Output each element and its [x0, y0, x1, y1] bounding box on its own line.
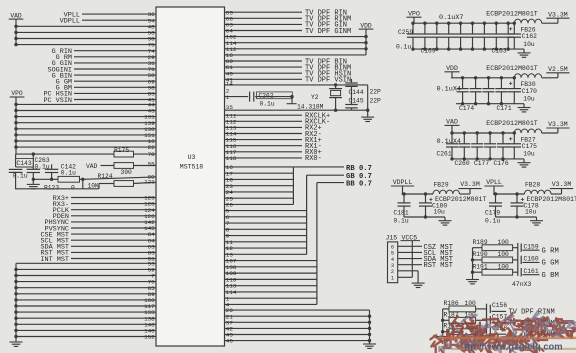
svg-text:1: 1 [391, 276, 394, 282]
ground J15 [412, 282, 425, 284]
svg-text:G GM: G GM [542, 260, 559, 268]
junction bottom bus [14, 335, 17, 338]
svg-text:C144: C144 [349, 89, 364, 96]
svg-text:C261: C261 [437, 150, 452, 157]
wire VDPLL stub [402, 186, 404, 194]
junction R123 right / loop [80, 178, 84, 180]
junction left bus [471, 271, 474, 274]
svg-text:ECBP2012M801T: ECBP2012M801T [486, 120, 537, 127]
capacitor C158 [489, 328, 491, 336]
wire U3 pin 12 to GB bus [225, 247, 307, 249]
junction bottom bus [14, 323, 17, 326]
wire VPO stub [413, 17, 415, 23]
wire U3 pin 116 RX1- [225, 145, 303, 147]
junction VPO bus [14, 115, 17, 118]
ground R186 network [436, 336, 449, 338]
watermark glyph band row 2 [430, 330, 547, 353]
ground filter VPO [523, 49, 525, 53]
resistor R187 100 [443, 319, 449, 321]
capacitor filter VPO #4 [447, 22, 450, 25]
junction bottom bus [14, 298, 17, 301]
junction VPO bus [14, 127, 17, 130]
wire VDD bottom rail [456, 103, 524, 105]
junction bottom bus [14, 268, 17, 271]
junction VPO bus [14, 145, 17, 148]
svg-text:V3.3M: V3.3M [552, 181, 572, 188]
wire U3 pin 112 RXCLK- [225, 120, 303, 122]
wire bottom bus to U3 pin 133 [16, 311, 156, 313]
junction bottom bus [14, 304, 17, 307]
ferrite bead FB28 ECBP2012M801T [525, 190, 552, 194]
svg-text:0.1u: 0.1u [260, 101, 275, 108]
svg-text:R186: R186 [444, 300, 459, 307]
wire crystal right branch [367, 85, 369, 110]
wire bottom-right bus [369, 310, 371, 344]
wire VDD drop [365, 29, 367, 55]
wire U3 pin 40 TV DPF HSIN [225, 72, 303, 74]
svg-text:VDPLL: VDPLL [393, 179, 413, 186]
wire cap common bus [517, 243, 519, 276]
wire bottom bus to U3 pin 7 [16, 275, 156, 277]
wire VAD bus to U3 pin 30 [16, 38, 156, 40]
wire U3 pin 8 to GB bus [225, 228, 307, 230]
svg-text:C143: C143 [17, 160, 32, 167]
wire U3 pin 16 to RB bus [225, 166, 294, 168]
junction left bus [441, 330, 444, 333]
capacitor C170 10u electrolytic [513, 76, 516, 79]
junction VDD drop [364, 35, 367, 38]
junction VPO bus [14, 139, 17, 142]
ground VDPLL filter [444, 217, 446, 221]
ground R189 network [466, 279, 479, 281]
wire J15 SDA MST [398, 258, 422, 260]
wire bus top to U3 pin 53 [16, 262, 156, 264]
capacitor C156 [489, 305, 491, 313]
svg-text:C174: C174 [459, 105, 474, 112]
wire U3 pin 1 to BB bus [225, 297, 317, 299]
capacitor filter VAD #5 [501, 131, 504, 134]
wire VAD trunk [15, 19, 17, 44]
wire U3 pin 18 to RB bus [225, 178, 294, 180]
wire J15 pin 2 to ground [398, 270, 418, 272]
junction ground bus [368, 339, 371, 342]
capacitor filter VAD #1 [450, 131, 453, 134]
wire bottom bus to U3 pin 146 [16, 323, 156, 325]
svg-text:+: + [509, 136, 513, 143]
svg-text:C169: C169 [421, 48, 436, 55]
svg-text:C179: C179 [485, 209, 500, 216]
svg-text:55: 55 [148, 160, 156, 167]
wire U3 pin 66 TV DPF RINM [225, 17, 303, 19]
wire VPO bus to U3 pin 16 [16, 140, 156, 142]
svg-text:C260: C260 [455, 160, 470, 167]
wire node to U3 pin 80 [83, 177, 156, 179]
wire U3 pin 117 RX0+ [225, 151, 303, 153]
capacitor filter VDD #2 [474, 76, 477, 79]
ground crystal [367, 110, 369, 117]
capacitor C178 10u electrolytic [515, 192, 518, 195]
svg-text:V2.5M: V2.5M [548, 66, 568, 73]
wire bottom bus to U3 pin 138 [16, 317, 156, 319]
capacitor C157 [489, 316, 491, 324]
svg-text:10u: 10u [523, 151, 535, 158]
wire U3 pin 5 to GB bus [225, 210, 307, 212]
capacitor filter VPO #1 [411, 22, 414, 25]
wire U3 pin 4 to BB bus [225, 303, 317, 305]
wire U3 pin 20 to ground bus [225, 309, 370, 311]
junction left bus [471, 258, 474, 261]
svg-text:VPLL: VPLL [486, 179, 502, 186]
svg-text:R124: R124 [98, 173, 113, 180]
resistor R186 100 [443, 308, 449, 310]
wire U3 pin 7 to GB bus [225, 222, 307, 224]
svg-text:0.1u: 0.1u [396, 44, 411, 51]
ground filter VAD [523, 159, 525, 163]
capacitor filter VDD #3 [487, 76, 490, 79]
junction VPO bus [14, 121, 17, 124]
wire VPO rail [413, 22, 514, 24]
wire VAD bus to U3 pin 75 [16, 44, 156, 46]
wire to TV DPF GINM [492, 322, 507, 324]
svg-text:J15: J15 [386, 234, 398, 241]
wire VPLL cap bottom [496, 216, 537, 218]
svg-text:PC VSIN: PC VSIN [43, 97, 72, 105]
wire U3 pin 64 TV DPF GINM [225, 30, 303, 32]
wire to G RM [523, 249, 540, 251]
wire R189 to cap [513, 247, 518, 249]
svg-text:G RM: G RM [542, 247, 559, 255]
svg-text:100: 100 [498, 239, 510, 246]
svg-text:RX0-: RX0- [305, 155, 322, 163]
wire bottom bus to U3 pin 76 [16, 281, 156, 283]
capacitor C162 10u electrolytic [513, 22, 516, 25]
wire U3 pin 108 to BB bus [225, 266, 317, 268]
ground bottom-right bus [363, 343, 376, 345]
junction bottom bus [14, 280, 17, 283]
wire cap common bus 2 [486, 304, 488, 335]
wire BB 0.7 output [317, 182, 344, 184]
svg-text:VAD: VAD [86, 163, 98, 170]
wire VPO trunk [15, 97, 17, 154]
wire to TV DPF RINM [492, 310, 507, 312]
svg-text:C171: C171 [497, 105, 512, 112]
wire to TV DPF BINM [492, 333, 507, 335]
svg-text:R189: R189 [473, 239, 488, 246]
label box C262 [257, 92, 293, 99]
svg-text:118: 118 [226, 155, 237, 162]
wire U3 pin 65 TV DPF RIN [225, 11, 303, 13]
junction bottom bus [14, 317, 17, 320]
svg-text:U3: U3 [188, 154, 196, 161]
svg-text:0: 0 [71, 184, 75, 191]
wire R188 to cap [476, 331, 487, 333]
svg-text:VDD: VDD [360, 22, 372, 29]
wire U3 pin 37 to ground bus [225, 321, 370, 323]
wire U3 pin 118 RX0- [225, 157, 303, 159]
svg-text:VDPLL: VDPLL [60, 18, 80, 26]
wire U3 pin 25 to RB bus [225, 197, 294, 199]
wire R187 to cap [476, 319, 487, 321]
svg-text:22P: 22P [370, 97, 382, 104]
junction ground bus [368, 321, 371, 324]
wire U3 pin 113 RX2+ [225, 126, 303, 128]
wire decoupling bottom node [33, 178, 58, 180]
capacitor C142 [51, 164, 53, 169]
wire RB 0.7 output [293, 166, 344, 168]
wire U3 pin 43 to ground bus [225, 334, 370, 336]
svg-text:C163: C163 [492, 48, 507, 55]
capacitor filter VPO #8 [495, 22, 498, 25]
ferrite bead FB29 ECBP2012M801T [433, 190, 460, 194]
svg-text:121: 121 [144, 178, 155, 185]
capacitor filter VPO #2 [423, 22, 426, 25]
junction VAD bus [14, 25, 17, 28]
junction C142 bottom [50, 178, 53, 181]
wire U3 pin 23 to RB bus [225, 185, 294, 187]
svg-text:RST MST: RST MST [424, 262, 453, 270]
wire VAD rail [451, 132, 514, 134]
capacitor C161 [520, 268, 522, 276]
wire U3 pin 112 to VDD [225, 48, 367, 50]
svg-text:R123: R123 [44, 184, 59, 191]
wire U3 pin 11 to GB bus [225, 241, 307, 243]
capacitor C179 0.1u [494, 192, 497, 195]
wire U3 pin 107 to BB bus [225, 260, 317, 262]
wire bottom bus to U3 pin 59 [16, 268, 156, 270]
wire U3 pin 9 to GB bus [225, 235, 307, 237]
svg-text:R191: R191 [473, 263, 488, 270]
svg-text:C162: C162 [522, 33, 537, 40]
wire 10K to U3 pin 121 [134, 182, 157, 183]
wire VPLL rail [493, 193, 525, 195]
svg-text:INT MST: INT MST [40, 256, 69, 264]
junction ground bus [368, 327, 371, 330]
junction C263 bottom [32, 178, 35, 181]
junction crystal ground node [366, 109, 369, 112]
ground VPLL filter [536, 217, 538, 221]
wire R186 to cap [476, 308, 487, 310]
wire FB26 to V3.3M [542, 22, 558, 24]
svg-text:R175: R175 [114, 147, 129, 154]
wire U3 pin 60 TV DPF BIN [225, 60, 303, 62]
svg-text:0.1uX4: 0.1uX4 [437, 138, 461, 146]
wire BB bus [316, 183, 318, 305]
svg-text:C160: C160 [524, 256, 539, 263]
junction VDD drop [364, 47, 367, 50]
wire VAD bottom rail [451, 158, 524, 160]
wire U3 pin 110 to BB bus [225, 278, 317, 280]
svg-text:C156: C156 [492, 302, 507, 309]
junction bottom bus [14, 329, 17, 332]
svg-text:C176: C176 [494, 160, 509, 167]
wire J15 pin 1 to VCC5 [398, 276, 413, 278]
svg-text:0.1u: 0.1u [13, 173, 28, 180]
wire 10K left lead [99, 183, 114, 185]
wire U3 pin 113 to BB bus [225, 285, 317, 287]
svg-text:22: 22 [148, 144, 156, 151]
junction VAD bus [14, 31, 17, 34]
svg-text:47nX3: 47nX3 [512, 281, 532, 288]
svg-text:V3.3M: V3.3M [548, 11, 568, 18]
wire bottom bus to U3 pin 117 [16, 305, 156, 307]
capacitor filter VAD #3 [476, 131, 479, 134]
junction VPO bus [14, 133, 17, 136]
wire VAD stub [451, 125, 453, 133]
ground filter VDD [523, 104, 525, 108]
svg-text:C177: C177 [474, 160, 489, 167]
wire node A to R175 [16, 153, 114, 155]
watermark underline stripe [438, 337, 576, 340]
junction crystal bottom [334, 109, 337, 112]
wire bottom bus to U3 pin 89 [16, 293, 156, 295]
svg-text:10u: 10u [434, 209, 446, 216]
wire U3 pin 6 to GB bus [225, 216, 307, 218]
svg-text:C262: C262 [259, 93, 274, 100]
capacitor C145 [345, 104, 357, 106]
svg-text:Y2: Y2 [311, 94, 319, 101]
svg-text:3: 3 [391, 263, 394, 269]
resistor R124 390 [114, 163, 134, 169]
svg-text:C175: C175 [522, 143, 537, 150]
svg-text:C181: C181 [394, 209, 409, 216]
svg-text:0.1u: 0.1u [394, 217, 409, 224]
wire J15 CSZ MST [398, 245, 422, 247]
wire VPO bus to U3 pin 22 [16, 146, 156, 148]
wire U3 pin 111 RXCLK+ [225, 114, 303, 116]
svg-text:0.1u: 0.1u [485, 217, 500, 224]
resistor R123 [58, 176, 80, 182]
capacitor filter VPO #7 [483, 22, 486, 25]
ferrite bead FB26 ECBP2012M801T [514, 19, 541, 23]
wire FB29 out V3.3M [460, 193, 471, 195]
svg-text:ttp://www.gzgielq.com: ttp://www.gzgielq.com [464, 341, 563, 352]
svg-text:C161: C161 [524, 268, 539, 275]
wire VDD stub [451, 72, 453, 78]
wire U3 pin 109 to BB bus [225, 272, 317, 274]
junction VAD bus [14, 37, 17, 40]
junction bottom bus [14, 292, 17, 295]
wire bottom bus to U3 pin 152 [16, 336, 156, 338]
resistor R189 100 [473, 247, 483, 249]
wire U3 pin 17 to RB bus [225, 172, 294, 174]
wire crystal bottom rail U3 pin 35 [225, 109, 368, 111]
wire U3 pin 45 to ground bus [225, 340, 370, 342]
wire VPO bus to U3 pin 44 [16, 103, 156, 105]
svg-text:V3.3M: V3.3M [460, 181, 480, 188]
svg-text:0.1u: 0.1u [61, 170, 76, 177]
resistor R175 [114, 151, 134, 157]
wire R186 network left bus [442, 309, 444, 336]
junction VDD drop [364, 41, 367, 44]
svg-text:VDD: VDD [446, 65, 458, 72]
junction bottom bus [14, 310, 17, 313]
capacitor C181 0.1u [402, 192, 405, 195]
wire VPO bus to U3 pin 151 [16, 134, 156, 136]
ferrite bead FB27 ECBP2012M801T [514, 129, 541, 133]
junction left bus [441, 319, 444, 322]
svg-text:78: 78 [148, 151, 156, 158]
capacitor filter VAD #2 [463, 131, 466, 134]
capacitor C144 [351, 79, 353, 83]
wire U3 pin 114 to VDD [225, 42, 367, 44]
svg-text:14.318M: 14.318M [297, 103, 324, 110]
svg-text:C159: C159 [524, 243, 539, 250]
wire J15 SCL MST [398, 251, 422, 253]
wire loop bottom [15, 188, 17, 189]
svg-text:C170: C170 [522, 88, 537, 95]
capacitor C159 [520, 244, 522, 252]
wire U3 pin 16 to VDD [225, 54, 367, 56]
capacitor filter VPO #9 [507, 22, 510, 25]
svg-text:2: 2 [391, 269, 394, 275]
svg-text:6: 6 [391, 245, 394, 251]
svg-text:10u: 10u [523, 96, 535, 103]
wire U3 pin 114 to BB bus [225, 291, 317, 293]
svg-text:ECBP2012M801T: ECBP2012M801T [486, 65, 537, 72]
capacitor C143 [15, 154, 17, 167]
wire R191 to cap [513, 271, 518, 273]
wire bottom bus to U3 pin 85 [16, 287, 156, 289]
wire bottom bus to U3 pin 100 [16, 299, 156, 301]
capacitor C175 10u electrolytic [513, 131, 516, 134]
svg-text:ECBP2012M801T: ECBP2012M801T [435, 196, 486, 203]
capacitor filter VDD #4 [500, 76, 503, 79]
wire U3 pin 63 TV DPF GIN [225, 23, 303, 25]
svg-text:100: 100 [498, 251, 510, 258]
svg-text:TV DPF VSIN: TV DPF VSIN [305, 77, 351, 85]
svg-text:10u: 10u [523, 41, 535, 48]
wire VPO bus to U3 pin 139 [16, 122, 156, 124]
wire VAD bus to U3 pin 58 [16, 31, 156, 33]
svg-text:10u: 10u [525, 209, 537, 216]
capacitor filter VPO #6 [471, 22, 474, 25]
wire U3 pin 41 TV DPF VSIN [225, 78, 303, 80]
svg-text:ECBP2012M801T: ECBP2012M801T [527, 196, 576, 203]
svg-text:35: 35 [226, 104, 234, 111]
svg-text:5: 5 [391, 251, 394, 257]
capacitor C262 [225, 96, 249, 98]
svg-text:10K: 10K [88, 182, 100, 189]
svg-text:C145: C145 [349, 98, 364, 105]
wire to G BM [523, 274, 540, 276]
wire VPLL to U3 pin 36 [82, 13, 156, 15]
wire U3 pin 102 to VDD [225, 36, 367, 38]
wire U3 pin 24 to RB bus [225, 191, 294, 193]
capacitor filter VDD #1 [461, 76, 464, 79]
wire R189 network left bus [472, 248, 474, 280]
resistor R190 100 [473, 259, 483, 261]
wire FB27 to V3.3M [542, 132, 558, 134]
svg-text:100: 100 [498, 263, 510, 270]
svg-text:390: 390 [121, 169, 133, 176]
svg-text:VAD: VAD [446, 119, 458, 126]
junction ground bus [368, 333, 371, 336]
junction C262 output [290, 95, 293, 98]
wire VDPLL cap bottom [404, 216, 445, 218]
junction VPO bus [14, 103, 17, 106]
svg-text:MST518: MST518 [180, 164, 204, 171]
wire U3 pin 13 to GB bus [225, 253, 307, 255]
svg-text:V3.3M: V3.3M [548, 121, 568, 128]
junction crystal top [334, 83, 337, 86]
wire bottom-left bus trunk [15, 263, 17, 341]
junction ground bus [368, 315, 371, 318]
wire VPO bottom rail [413, 48, 524, 50]
svg-text:TV DPF RINM: TV DPF RINM [509, 309, 555, 317]
junction bottom bus [14, 286, 17, 289]
svg-text:152: 152 [144, 334, 155, 341]
wire VAD bus to U3 pin 48 [16, 25, 156, 27]
